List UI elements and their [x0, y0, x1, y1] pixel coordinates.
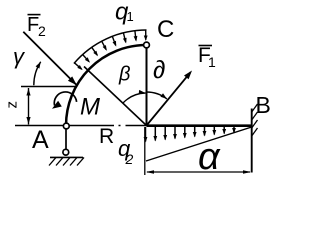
svg-text:R: R	[99, 125, 114, 148]
angle alpha arc	[146, 92, 167, 99]
svg-text:β: β	[118, 64, 130, 86]
wall hatching	[252, 104, 258, 112]
dimension line a	[147, 171, 250, 173]
moment M curved arrow	[54, 92, 76, 105]
pin circle at A	[63, 123, 69, 129]
z dimension line	[28, 88, 30, 125]
ground hatching	[49, 157, 56, 165]
support link	[65, 129, 67, 150]
q1 load arrows	[145, 30, 147, 40]
svg-text:1: 1	[127, 9, 134, 24]
z upper extension line	[21, 86, 76, 88]
force F2 arrow	[23, 32, 77, 85]
svg-text:C: C	[157, 16, 174, 43]
svg-text:∂: ∂	[153, 56, 165, 84]
distributed load q2 arrows	[145, 127, 147, 142]
distributed load q1 tail arc	[74, 30, 147, 64]
lower pin circle	[63, 149, 69, 155]
extension line below junction	[144, 127, 146, 175]
wall at B	[251, 109, 253, 173]
frame arc A-C (quarter circle member)	[66, 45, 147, 126]
svg-text:A: A	[32, 126, 49, 154]
member C to junction (vertical bar CD)	[146, 48, 148, 126]
svg-text:2: 2	[125, 151, 134, 167]
centerline A to junction (radius R)	[15, 125, 114, 127]
svg-text:z: z	[4, 101, 21, 109]
svg-text:2: 2	[38, 23, 46, 39]
angle beta arc	[123, 93, 145, 103]
node C pin circle	[144, 42, 150, 48]
svg-text:M: M	[80, 94, 100, 121]
angle gamma arc	[34, 62, 41, 85]
beam junction to support B	[147, 124, 252, 127]
ground line	[50, 156, 83, 158]
load triangle hypotenuse	[146, 127, 252, 161]
svg-text:B: B	[256, 92, 271, 118]
svg-text:α: α	[198, 136, 221, 178]
force F1 arrow	[147, 72, 191, 125]
svg-text:1: 1	[208, 54, 216, 70]
radius ray at angle beta	[84, 67, 147, 126]
